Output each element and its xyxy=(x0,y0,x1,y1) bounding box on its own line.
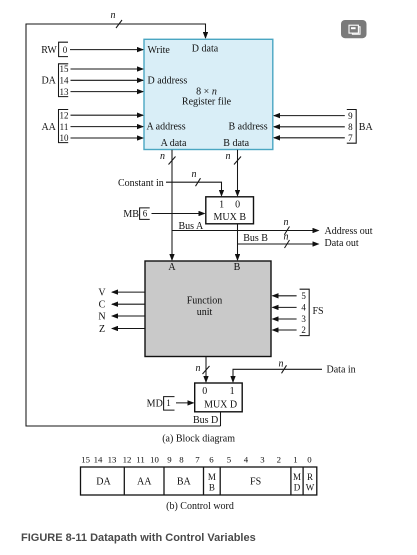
svg-text:6: 6 xyxy=(143,209,148,219)
svg-text:5: 5 xyxy=(301,291,306,301)
wire A data / Bus A xyxy=(171,150,173,260)
svg-text:D: D xyxy=(294,482,301,492)
wire DA bit 15 xyxy=(71,68,144,70)
function unit U2 xyxy=(145,261,271,357)
wire B data xyxy=(237,150,239,196)
svg-text:FS: FS xyxy=(250,477,261,488)
svg-text:11: 11 xyxy=(136,455,144,465)
svg-text:10: 10 xyxy=(60,133,70,143)
wire Constant in to MUX B input 1 xyxy=(166,182,222,196)
svg-text:V: V xyxy=(98,287,106,298)
svg-text:Function: Function xyxy=(187,296,223,307)
svg-text:n: n xyxy=(226,151,231,162)
svg-text:N: N xyxy=(98,311,105,322)
svg-text:1: 1 xyxy=(230,386,235,397)
svg-text:Bus B: Bus B xyxy=(243,233,268,244)
svg-text:n: n xyxy=(196,363,201,374)
wire function unit output to MUX D input 0 xyxy=(205,357,207,382)
svg-text:M: M xyxy=(208,472,216,482)
svg-text:9: 9 xyxy=(348,111,353,121)
svg-text:B: B xyxy=(209,482,215,492)
svg-text:FS: FS xyxy=(313,306,324,317)
svg-text:Address out: Address out xyxy=(325,226,373,237)
svg-text:2: 2 xyxy=(277,455,281,465)
wire AA bit 10 xyxy=(71,137,144,139)
wire MD select to MUX D xyxy=(176,402,194,404)
svg-text:4: 4 xyxy=(301,303,306,313)
wire FS bit 2 xyxy=(273,329,297,331)
svg-text:AA: AA xyxy=(137,477,152,488)
wire MB select to MUX B xyxy=(152,213,205,215)
svg-text:14: 14 xyxy=(94,455,103,465)
svg-text:0: 0 xyxy=(235,200,240,211)
svg-text:DA: DA xyxy=(41,75,56,86)
wire RW to Write xyxy=(70,49,143,51)
wire FS bit 4 xyxy=(273,306,297,308)
control word bit numbers xyxy=(81,455,312,465)
wire BA bit 7 xyxy=(274,137,345,139)
svg-text:14: 14 xyxy=(60,76,70,86)
wire AA bit 12 xyxy=(71,114,144,116)
svg-text:MB: MB xyxy=(123,209,139,220)
svg-text:MUX B: MUX B xyxy=(214,212,247,223)
svg-text:B: B xyxy=(234,262,241,273)
svg-text:n: n xyxy=(160,151,165,162)
register file U1 xyxy=(144,39,273,149)
svg-text:2: 2 xyxy=(301,325,306,335)
svg-text:Constant in: Constant in xyxy=(118,178,164,189)
svg-text:n: n xyxy=(284,217,289,228)
svg-text:8: 8 xyxy=(348,122,353,132)
wire Bus B to Data out xyxy=(238,243,319,245)
svg-text:0: 0 xyxy=(202,386,207,397)
wire Bus D feedback loop xyxy=(26,24,221,426)
svg-text:13: 13 xyxy=(60,87,70,97)
svg-text:3: 3 xyxy=(260,455,265,465)
svg-text:n: n xyxy=(284,232,289,243)
svg-text:DA: DA xyxy=(96,477,111,488)
svg-text:n: n xyxy=(192,169,197,180)
svg-text:W: W xyxy=(306,482,315,492)
svg-text:Z: Z xyxy=(99,324,105,335)
svg-text:n: n xyxy=(279,359,284,370)
svg-text:(b) Control word: (b) Control word xyxy=(166,501,234,512)
svg-text:A data: A data xyxy=(161,138,187,149)
svg-text:B address: B address xyxy=(229,122,268,133)
svg-text:Data in: Data in xyxy=(327,365,356,376)
svg-text:C: C xyxy=(99,300,106,311)
svg-text:R: R xyxy=(307,472,313,482)
wire AA bit 11 xyxy=(71,126,144,128)
svg-text:0: 0 xyxy=(307,455,312,465)
control word register table xyxy=(81,467,317,495)
svg-text:(a) Block diagram: (a) Block diagram xyxy=(162,433,235,444)
svg-text:BA: BA xyxy=(177,477,192,488)
svg-text:M: M xyxy=(293,472,301,482)
svg-text:B data: B data xyxy=(223,138,249,149)
svg-text:12: 12 xyxy=(60,110,69,120)
svg-text:6: 6 xyxy=(209,455,214,465)
wire FS bit 5 xyxy=(273,295,297,297)
svg-text:D address: D address xyxy=(148,76,188,87)
svg-text:FIGURE 8-11 Datapath with Cont: FIGURE 8-11 Datapath with Control Variab… xyxy=(21,532,256,544)
wire Data in to MUX D input 1 xyxy=(233,369,322,382)
svg-text:9: 9 xyxy=(167,455,172,465)
wire Bus B xyxy=(237,224,239,260)
mux B xyxy=(206,197,254,224)
svg-text:13: 13 xyxy=(108,455,117,465)
svg-text:4: 4 xyxy=(244,455,249,465)
wire DA bit 13 xyxy=(71,91,144,93)
svg-text:8: 8 xyxy=(179,455,184,465)
svg-text:5: 5 xyxy=(227,455,232,465)
svg-text:MD: MD xyxy=(147,398,163,409)
svg-text:D data: D data xyxy=(192,43,219,54)
svg-text:n: n xyxy=(111,10,116,21)
svg-text:15: 15 xyxy=(81,455,90,465)
svg-text:A: A xyxy=(168,262,176,273)
svg-text:BA: BA xyxy=(359,122,374,133)
svg-text:12: 12 xyxy=(123,455,132,465)
svg-text:unit: unit xyxy=(197,307,213,318)
svg-text:Data out: Data out xyxy=(325,238,359,249)
svg-text:RW: RW xyxy=(41,45,57,56)
wire BA bit 9 xyxy=(274,115,345,117)
svg-text:7: 7 xyxy=(348,133,353,143)
svg-text:Write: Write xyxy=(148,45,171,56)
bus width slash n (top wire) xyxy=(116,20,122,28)
svg-text:15: 15 xyxy=(60,64,70,74)
svg-text:7: 7 xyxy=(195,455,200,465)
svg-text:AA: AA xyxy=(41,122,56,133)
svg-text:10: 10 xyxy=(150,455,159,465)
wire Bus A to Address out xyxy=(172,230,319,232)
svg-text:3: 3 xyxy=(301,314,306,324)
svg-text:0: 0 xyxy=(63,45,68,55)
svg-text:11: 11 xyxy=(60,122,69,132)
svg-text:MUX D: MUX D xyxy=(204,399,237,410)
svg-text:1: 1 xyxy=(219,200,224,211)
wire DA bit 14 xyxy=(71,79,144,81)
svg-text:1: 1 xyxy=(293,455,297,465)
wire FS bit 3 xyxy=(273,318,297,320)
svg-text:Bus D: Bus D xyxy=(193,415,218,426)
wire Bus D xyxy=(220,412,222,426)
svg-text:Register file: Register file xyxy=(182,97,232,108)
wire BA bit 8 xyxy=(274,126,345,128)
svg-text:1: 1 xyxy=(166,398,171,408)
svg-text:A address: A address xyxy=(147,122,186,133)
icon button (slides) xyxy=(341,20,367,38)
mux D xyxy=(195,383,243,412)
